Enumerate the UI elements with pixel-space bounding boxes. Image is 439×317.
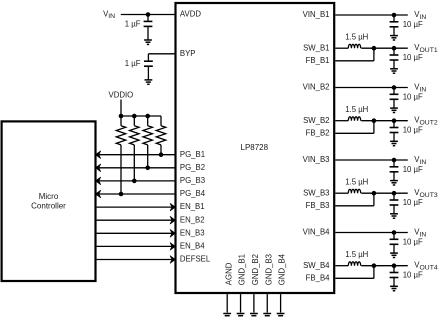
wire AGND pin to ground [226, 294, 228, 312]
wire FB_B3 feedback [335, 193, 374, 206]
wire resistor R1 to PG_B4 line [120, 145, 122, 194]
junction VDDIO rail / R3 [145, 114, 150, 119]
junction R2 / PG_B3 [132, 179, 137, 184]
wire resistor R4 to PG_B1 line [160, 145, 162, 155]
svg-text:GND_B1: GND_B1 [238, 254, 247, 285]
wire resistor R2 to PG_B3 line [133, 145, 135, 181]
svg-text:GND_B4: GND_B4 [278, 253, 287, 285]
wire inductor to output node 1 [361, 47, 408, 49]
junction VDDIO rail / R1 [119, 114, 124, 119]
junction VIN_B4 node [392, 230, 397, 235]
svg-text:10 µF: 10 µF [403, 126, 423, 135]
wire PG_B2 [97, 167, 175, 169]
arrowhead EN_B2 into LP8728 [170, 216, 175, 224]
inductor L4 1.5 uH [348, 262, 360, 266]
wire cap to ground (output 2) [393, 133, 395, 142]
svg-text:EN_B1: EN_B1 [180, 202, 205, 211]
svg-text:LP8728: LP8728 [241, 143, 269, 152]
junction R4 / PG_B1 [159, 152, 164, 157]
wire C2 to ground [147, 66, 149, 80]
wire node to C VIN_B1 [393, 15, 395, 22]
junction VIN_B3 node [392, 158, 397, 163]
svg-text:PG_B4: PG_B4 [180, 189, 206, 198]
svg-text:1 µF: 1 µF [125, 59, 141, 68]
arrowhead EN_B3 into LP8728 [170, 229, 175, 237]
svg-text:GND_B2: GND_B2 [251, 254, 260, 285]
wire node to C1 [147, 15, 149, 22]
svg-text:GND_B3: GND_B3 [264, 254, 273, 285]
capacitor C1 plates [144, 21, 153, 26]
svg-text:EN_B2: EN_B2 [180, 215, 205, 224]
capacitor 10uF input block 3 [390, 167, 399, 172]
junction SW/FB node 1 [372, 46, 377, 51]
wire inductor to output node 4 [361, 265, 408, 267]
svg-text:1.5 µH: 1.5 µH [345, 178, 368, 187]
capacitor 10uF output block 1 [390, 55, 399, 60]
svg-text:VDDIO: VDDIO [109, 90, 134, 99]
svg-text:VIN_B4: VIN_B4 [303, 228, 331, 237]
wire EN_B2 [97, 219, 175, 221]
ground symbol (output 3) [390, 214, 398, 218]
resistor R1 (pull-up) [116, 126, 125, 145]
capacitor 10uF input block 4 [390, 239, 399, 244]
svg-text:VIN_B1: VIN_B1 [303, 10, 330, 19]
svg-text:FB_B1: FB_B1 [306, 56, 330, 65]
wire GND_B1 pin to ground [240, 294, 242, 312]
junction R3 / PG_B2 [145, 166, 150, 171]
IC U1 LP8728 body [176, 3, 335, 293]
ground symbol (output 4) [390, 286, 398, 290]
wire DEFSEL [97, 259, 175, 261]
ground symbol (input 4) [390, 253, 398, 257]
junction VDDIO rail / R2 [132, 114, 137, 119]
svg-text:Micro: Micro [39, 192, 59, 201]
svg-text:BYP: BYP [180, 49, 196, 58]
junction output cap node 3 [392, 191, 397, 196]
wire rail to resistor R4 [160, 116, 162, 126]
svg-text:FB_B4: FB_B4 [306, 273, 330, 282]
wire cap to ground (input 4) [393, 244, 395, 253]
arrowhead EN_B1 into LP8728 [170, 203, 175, 211]
wire GND_B2 pin to ground [253, 294, 255, 312]
inductor L1 1.5 uH [348, 44, 360, 48]
junction SW/FB node 3 [372, 191, 377, 196]
ground symbol (input 2) [390, 108, 398, 112]
junction R1 / PG_B4 [119, 192, 124, 197]
wire node to C OUT3 [393, 193, 395, 200]
inductor L2 1.5 uH [348, 117, 360, 121]
wire VIN_B3 to input node [335, 159, 408, 161]
junction VIN_B1 node [392, 13, 397, 18]
junction output cap node 2 [392, 118, 397, 123]
ground symbol under GND_B3 [263, 314, 271, 317]
svg-text:PG_B3: PG_B3 [180, 176, 205, 185]
wire VIN to AVDD pin [121, 14, 175, 16]
svg-text:10 µF: 10 µF [403, 271, 423, 280]
wire SW_B4 to inductor [335, 265, 348, 267]
wire SW_B3 to inductor [335, 192, 348, 194]
wire FB_B1 feedback [335, 48, 374, 61]
arrowhead DEFSEL into LP8728 [170, 256, 175, 264]
wire cap to ground (output 3) [393, 205, 395, 214]
wire SW_B1 to inductor [335, 47, 348, 49]
wire PG_B3 [97, 180, 175, 182]
wire C1 to ground [147, 26, 149, 40]
svg-text:10 µF: 10 µF [403, 238, 423, 247]
wire PG_B1 [97, 154, 175, 156]
resistor R4 (pull-up) [156, 126, 165, 145]
capacitor 10uF input block 1 [390, 22, 399, 27]
capacitor 10uF output block 3 [390, 200, 399, 205]
arrowhead PG_B4 into microcontroller [95, 190, 100, 198]
wire node to C OUT1 [393, 48, 395, 55]
wire SW_B2 to inductor [335, 120, 348, 122]
wire inductor to output node 2 [361, 120, 408, 122]
wire GND_B3 pin to ground [266, 294, 268, 312]
wire cap to ground (input 3) [393, 172, 395, 181]
wire node to C VIN_B3 [393, 160, 395, 167]
svg-text:PG_B1: PG_B1 [180, 150, 205, 159]
resistor R2 (pull-up) [130, 126, 139, 145]
wire node to C OUT2 [393, 121, 395, 128]
capacitor 10uF input block 2 [390, 94, 399, 99]
svg-text:1 µF: 1 µF [125, 19, 141, 28]
svg-text:1.5 µH: 1.5 µH [345, 250, 368, 259]
wire resistor R3 to PG_B2 line [147, 145, 149, 168]
capacitor C2 plates [144, 61, 153, 66]
junction output cap node 4 [392, 263, 397, 268]
arrowhead PG_B3 into microcontroller [95, 177, 100, 185]
svg-text:AGND: AGND [224, 262, 233, 285]
ground symbol (output 1) [390, 69, 398, 73]
svg-text:1.5 µH: 1.5 µH [345, 105, 368, 114]
wire BYP pin to C2 [148, 54, 174, 61]
svg-text:10 µF: 10 µF [403, 198, 423, 207]
junction SW/FB node 2 [372, 118, 377, 123]
svg-text:EN_B4: EN_B4 [180, 242, 205, 251]
wire cap to ground (input 2) [393, 99, 395, 108]
svg-text:EN_B3: EN_B3 [180, 228, 205, 237]
arrowhead EN_B4 into LP8728 [170, 243, 175, 251]
svg-text:1.5 µH: 1.5 µH [345, 33, 368, 42]
wire node to C OUT4 [393, 266, 395, 273]
wire cap to ground (output 4) [393, 278, 395, 287]
wire VDDIO feed [120, 100, 122, 117]
wire EN_B4 [97, 245, 175, 247]
micro controller label [31, 192, 66, 211]
wire rail to resistor R2 [133, 116, 135, 126]
ground symbol below C1 [144, 40, 152, 44]
wire VIN_B4 to input node [335, 232, 408, 234]
junction node on VIN wire [146, 12, 151, 17]
wire node to C VIN_B2 [393, 88, 395, 95]
svg-text:10 µF: 10 µF [403, 53, 423, 62]
inductor L3 1.5 uH [348, 189, 360, 193]
svg-text:FB_B2: FB_B2 [306, 128, 330, 137]
junction VIN_B2 node [392, 85, 397, 90]
svg-text:10 µF: 10 µF [403, 165, 423, 174]
arrowhead PG_B2 into microcontroller [95, 164, 100, 172]
svg-text:VIN_B2: VIN_B2 [303, 83, 330, 92]
svg-text:Controller: Controller [31, 202, 66, 211]
svg-text:SW_B4: SW_B4 [303, 261, 330, 270]
svg-text:10 µF: 10 µF [403, 20, 423, 29]
wire VDDIO rail [121, 115, 161, 117]
svg-text:SW_B2: SW_B2 [303, 116, 329, 125]
ground symbol below C2 [145, 80, 153, 84]
svg-text:FB_B3: FB_B3 [306, 201, 330, 210]
ground symbol under GND_B1 [237, 314, 245, 317]
junction output cap node 1 [392, 46, 397, 51]
wire PG_B4 [97, 193, 175, 195]
wire node to C VIN_B4 [393, 233, 395, 240]
wire cap to ground (input 1) [393, 27, 395, 36]
wire rail to resistor R1 [120, 116, 122, 126]
arrowhead PG_B1 into microcontroller [95, 151, 100, 159]
svg-text:10 µF: 10 µF [403, 93, 423, 102]
ground symbol (input 3) [390, 181, 398, 185]
wire cap to ground (output 1) [393, 60, 395, 69]
wire EN_B3 [97, 232, 175, 234]
ground symbol under AGND [223, 314, 231, 317]
micro controller box [2, 121, 96, 281]
svg-text:AVDD: AVDD [180, 10, 201, 19]
svg-text:DEFSEL: DEFSEL [180, 255, 211, 264]
ground symbol under GND_B4 [277, 314, 285, 317]
wire FB_B2 feedback [335, 121, 374, 134]
capacitor 10uF output block 2 [390, 128, 399, 133]
wire VIN_B2 to input node [335, 87, 408, 89]
wire rail to resistor R3 [147, 116, 149, 126]
resistor R3 (pull-up) [143, 126, 152, 145]
svg-text:VIN_B3: VIN_B3 [303, 155, 330, 164]
svg-text:PG_B2: PG_B2 [180, 163, 205, 172]
capacitor 10uF output block 4 [390, 273, 399, 278]
junction SW/FB node 4 [372, 263, 377, 268]
ground symbol under GND_B2 [250, 314, 258, 317]
svg-text:SW_B3: SW_B3 [303, 188, 329, 197]
wire GND_B4 pin to ground [280, 294, 282, 312]
ground symbol (output 2) [390, 141, 398, 145]
ground symbol (input 1) [390, 36, 398, 40]
wire EN_B1 [97, 206, 175, 208]
wire inductor to output node 3 [361, 192, 408, 194]
wire FB_B4 feedback [335, 266, 374, 279]
svg-text:SW_B1: SW_B1 [303, 43, 329, 52]
wire VIN_B1 to input node [335, 14, 408, 16]
